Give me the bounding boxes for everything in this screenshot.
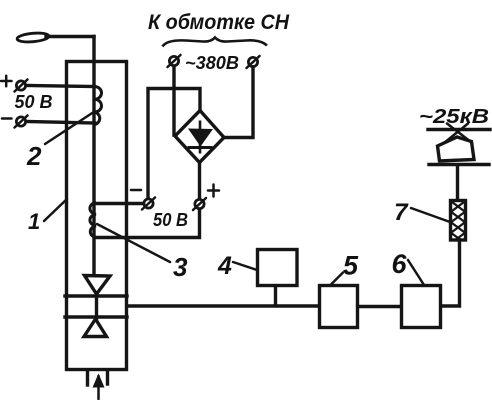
svg-text:6: 6 xyxy=(392,249,408,279)
svg-text:2: 2 xyxy=(26,141,42,171)
svg-text:1: 1 xyxy=(28,209,40,234)
svg-text:50 В: 50 В xyxy=(15,92,53,112)
svg-text:К обмотке СН: К обмотке СН xyxy=(148,11,290,34)
svg-text:4: 4 xyxy=(217,252,232,280)
svg-text:50 В: 50 В xyxy=(153,210,188,230)
svg-text:~380В: ~380В xyxy=(185,53,239,73)
svg-text:3: 3 xyxy=(173,252,188,282)
svg-text:~25кВ: ~25кВ xyxy=(419,106,489,128)
svg-text:5: 5 xyxy=(343,251,359,281)
svg-text:7: 7 xyxy=(394,199,409,226)
